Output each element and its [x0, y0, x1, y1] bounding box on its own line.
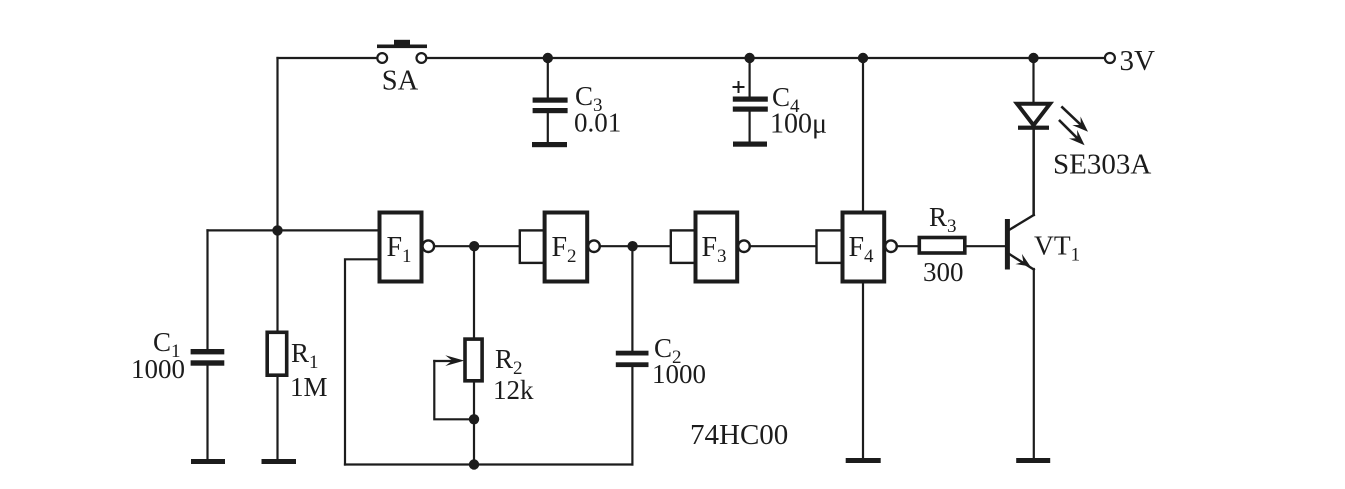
wire F4 output to R3: [897, 245, 920, 247]
resistor R3: [919, 202, 1005, 287]
svg-text:100μ: 100μ: [770, 109, 827, 140]
svg-text:R3: R3: [929, 202, 957, 237]
junction dot at C3 branch: [543, 53, 553, 63]
svg-text:1000: 1000: [131, 354, 185, 384]
svg-text:1000: 1000: [652, 359, 706, 389]
svg-text:74HC00: 74HC00: [690, 419, 788, 451]
resistor R1: [267, 230, 327, 459]
svg-text:VT1: VT1: [1034, 230, 1080, 266]
node A junction dot: [272, 225, 282, 235]
junction dot bottom feedback: [469, 459, 479, 469]
ground for VT1: [1016, 458, 1050, 463]
ground for C3: [532, 142, 567, 147]
junction dot at LED branch: [1028, 53, 1038, 63]
wire F4 power vertical upper: [862, 58, 864, 213]
capacitor C2: [616, 333, 706, 465]
resistor R2 (trimmer): [434, 339, 534, 464]
wire F2 output to F3: [600, 245, 671, 247]
ground for C1: [191, 459, 225, 464]
wire node A horizontal (C1 to F1 input): [208, 229, 380, 231]
gate F3: [671, 213, 750, 282]
svg-text:SA: SA: [382, 66, 419, 97]
svg-text:12k: 12k: [493, 375, 534, 405]
wire left vertical from rail to node A: [276, 58, 278, 230]
svg-text:R1: R1: [291, 338, 319, 373]
capacitor C3: [533, 58, 622, 142]
wire top rail right segment: [427, 57, 1105, 59]
gate F1: [380, 213, 435, 282]
ground for R1: [262, 459, 297, 464]
wire F1 lower input: [345, 259, 380, 464]
svg-text:1M: 1M: [290, 372, 328, 402]
ground for C4: [733, 142, 767, 147]
gate F2: [520, 213, 600, 282]
wire junction down to C2: [631, 246, 633, 351]
junction dot at F4 power branch: [858, 53, 868, 63]
junction dot R2 wiper: [469, 414, 479, 424]
svg-text:3V: 3V: [1120, 45, 1156, 77]
ground for F4: [846, 458, 881, 463]
LED SE303A: [1017, 58, 1151, 215]
transistor VT1: [1005, 129, 1080, 458]
label 74HC00: [690, 419, 788, 451]
terminal 3V: [1105, 45, 1155, 77]
switch SA: [377, 40, 427, 97]
wire bottom feedback: [345, 463, 632, 465]
junction dot at C4 branch: [744, 53, 754, 63]
svg-text:0.01: 0.01: [574, 108, 621, 138]
capacitor C4: [733, 58, 827, 142]
junction dot after F2: [627, 241, 637, 251]
capacitor C1: [131, 230, 224, 459]
svg-text:SE303A: SE303A: [1053, 149, 1151, 181]
svg-text:300: 300: [923, 257, 964, 287]
junction dot after F1: [469, 241, 479, 251]
gate F4: [817, 213, 897, 282]
wire F4 power vertical lower: [862, 282, 864, 459]
wire F1 output to F2: [434, 245, 520, 247]
wire top rail left segment: [278, 57, 378, 59]
wire junction down to R2: [473, 246, 475, 339]
wire F3 output to F4: [750, 245, 817, 247]
svg-text:R2: R2: [495, 344, 523, 379]
